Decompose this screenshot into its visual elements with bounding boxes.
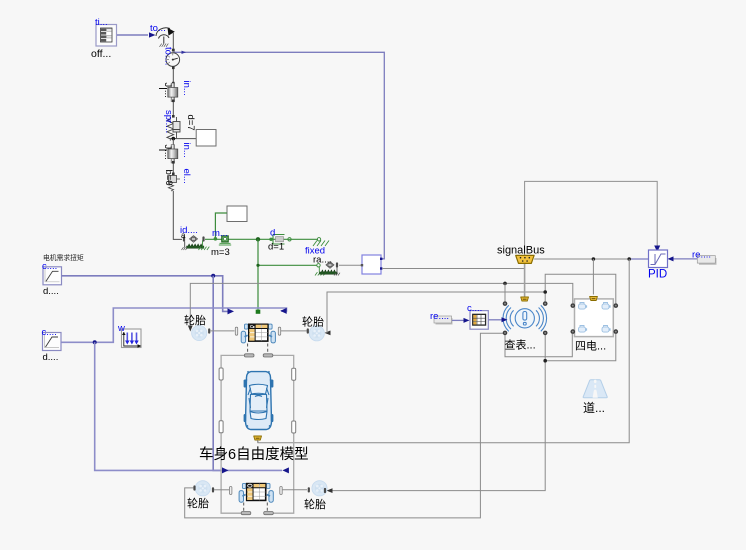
svg-text:c....: c.... [467,303,482,314]
svg-text:w: w [117,323,125,334]
svg-text:轮胎: 轮胎 [184,313,206,327]
svg-text:signalBus: signalBus [497,245,545,257]
svg-text:to....: to.... [163,47,174,65]
svg-text:四电...: 四电... [575,340,606,353]
svg-text:d....: d.... [43,352,59,363]
svg-text:J....: J.... [162,145,173,160]
svg-text:a: a [181,231,186,240]
svg-text:to...: to... [150,23,166,34]
svg-text:d: d [270,228,275,239]
svg-text:ra....: ra.... [313,255,332,266]
svg-text:m...: m... [212,228,228,239]
svg-text:m=3: m=3 [211,247,230,258]
svg-text:道...: 道... [583,401,605,415]
svg-text:d=1: d=1 [268,242,284,253]
svg-text:re....: re.... [692,250,711,261]
svg-text:轮胎: 轮胎 [302,315,324,329]
svg-text:轮胎: 轮胎 [304,497,326,511]
svg-text:d....: d.... [43,286,59,297]
svg-text:in...: in... [181,81,192,96]
svg-text:el...: el... [181,169,192,184]
svg-text:C▸: C▸ [250,324,256,329]
svg-text:off...: off... [91,48,111,60]
svg-text:查表...: 查表... [505,338,536,352]
svg-text:PID: PID [648,269,667,281]
svg-text:轮胎: 轮胎 [187,496,209,510]
svg-text:d=7: d=7 [185,115,196,131]
svg-text:in...: in... [181,143,192,158]
svg-text:c....: c.... [42,327,57,338]
svg-text:J....: J.... [162,83,173,98]
svg-text:车身6自由度模型: 车身6自由度模型 [199,446,309,463]
svg-text:ti...: ti... [95,17,108,28]
svg-text:spr....: spr.... [163,110,174,133]
svg-text:re....: re.... [430,311,449,322]
svg-text:c....: c.... [42,261,57,272]
svg-text:b=0: b=0 [163,170,174,186]
